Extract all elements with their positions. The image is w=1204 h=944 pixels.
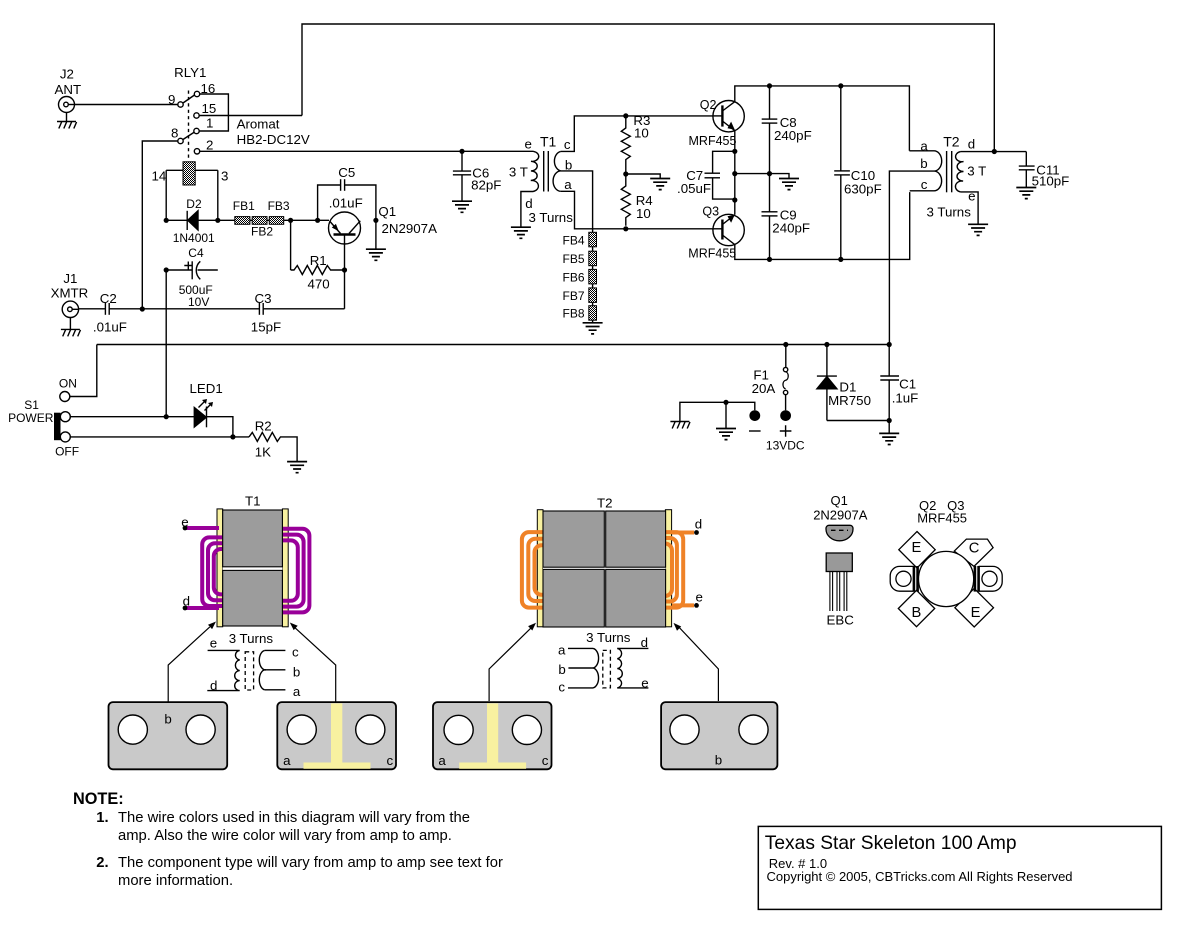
wire FB3 node to Q1 emitter xyxy=(291,219,329,221)
svg-text:10V: 10V xyxy=(188,295,209,309)
svg-text:3 T: 3 T xyxy=(967,164,986,179)
T1 figure lead d xyxy=(183,606,219,611)
connector J2 xyxy=(59,97,75,122)
svg-text:e: e xyxy=(968,189,975,204)
T2 figure lead d xyxy=(672,530,699,535)
Q1 package labels xyxy=(813,493,868,523)
T1 mini labels xyxy=(210,635,301,699)
wire FB3 node down to R1 xyxy=(290,220,292,270)
svg-text:470: 470 xyxy=(308,276,330,291)
svg-text:HB2-DC12V: HB2-DC12V xyxy=(237,132,310,147)
svg-text:FB5: FB5 xyxy=(563,252,585,266)
wire pin15 right to top rail riser xyxy=(199,115,302,117)
svg-text:.1uF: .1uF xyxy=(892,390,919,405)
node C6 top xyxy=(459,149,464,154)
svg-text:ANT: ANT xyxy=(55,82,82,97)
svg-text:d: d xyxy=(525,196,532,211)
node D2 left xyxy=(164,218,169,223)
ground below FB8 xyxy=(583,323,603,334)
node R4 bottom xyxy=(623,226,628,231)
T2 figure lead labels xyxy=(695,517,703,605)
Q1 labels xyxy=(378,204,437,236)
svg-text:630pF: 630pF xyxy=(844,181,882,196)
node R2 left xyxy=(230,434,235,439)
wire ON contact riser xyxy=(70,345,97,397)
arrow to T2 left bar xyxy=(489,623,536,701)
svg-text:1: 1 xyxy=(206,116,213,131)
ferrite bead FB5 xyxy=(589,251,597,266)
MRF455 lead diamond B bottom-left xyxy=(898,590,934,626)
R4 labels xyxy=(636,193,653,221)
Q1 package body front view xyxy=(826,553,852,572)
T1 figure core underlay xyxy=(223,510,283,626)
T1 figure winding loops right xyxy=(255,529,309,613)
node FB3 right xyxy=(288,218,293,223)
wire T1 c to Q2 base xyxy=(561,116,713,151)
svg-text:e: e xyxy=(641,675,648,690)
svg-text:J2: J2 xyxy=(60,66,74,81)
svg-text:Q1: Q1 xyxy=(831,493,848,508)
T1 figure lead e xyxy=(183,526,219,531)
ground at minus node xyxy=(716,429,736,440)
wire T1 b to beads xyxy=(561,171,593,323)
ground at R3/R4 xyxy=(650,179,670,190)
C2 labels xyxy=(93,291,127,334)
svg-text:3: 3 xyxy=(221,169,228,184)
terminal plus 13VDC xyxy=(780,410,792,437)
ground at C6 xyxy=(452,201,472,212)
node minus ground xyxy=(723,400,728,405)
svg-text:Q1: Q1 xyxy=(378,204,396,219)
T2 figure winding loops left xyxy=(522,532,560,608)
wire J2 to relay pin 9 xyxy=(75,104,178,106)
T1 figure bobbin left bar xyxy=(217,509,223,627)
svg-text:C4: C4 xyxy=(188,246,204,260)
connector J1 xyxy=(62,301,79,329)
wire Q1 base down xyxy=(344,235,346,309)
svg-text:d: d xyxy=(641,635,648,650)
svg-text:R1: R1 xyxy=(310,253,327,268)
T2 mini taps xyxy=(568,648,593,688)
LED LED1 xyxy=(194,399,213,427)
svg-text:2N2907A: 2N2907A xyxy=(382,221,438,236)
node emitter mid xyxy=(732,171,737,176)
wire pin8 down to C2 node xyxy=(142,141,178,309)
svg-text:C5: C5 xyxy=(338,165,355,180)
wire C3 row xyxy=(79,308,345,310)
diode D2 xyxy=(187,211,198,230)
svg-text:MRF455: MRF455 xyxy=(917,511,967,526)
svg-text:1N4001: 1N4001 xyxy=(173,231,215,245)
svg-text:a: a xyxy=(283,753,291,768)
capacitor C11 xyxy=(1019,152,1035,188)
Q2 labels xyxy=(689,98,737,148)
svg-text:9: 9 xyxy=(168,92,175,107)
svg-text:C3: C3 xyxy=(255,291,272,306)
svg-text:Aromat: Aromat xyxy=(237,117,280,132)
svg-text:EBC: EBC xyxy=(827,613,855,628)
T1 mini core (dashed) xyxy=(245,652,253,690)
svg-text:C: C xyxy=(969,540,980,556)
svg-text:b: b xyxy=(558,662,565,677)
node C2 right xyxy=(140,306,145,311)
RLY1 labels xyxy=(168,65,310,153)
wire T2 d lead xyxy=(961,151,1027,153)
svg-text:FB7: FB7 xyxy=(563,289,585,303)
svg-text:240pF: 240pF xyxy=(774,128,812,143)
T1 d lead xyxy=(521,192,533,228)
svg-text:FB2: FB2 xyxy=(251,225,273,239)
ferrite bead FB8 xyxy=(589,306,597,321)
MRF455 lead diamond C top-right xyxy=(954,539,993,566)
arrow to T1 right bar xyxy=(290,623,336,703)
T1 figure core blocks xyxy=(223,510,283,626)
ground at Q1 xyxy=(366,249,386,260)
diode D1 xyxy=(817,345,889,421)
svg-text:a: a xyxy=(564,177,572,192)
R1 labels xyxy=(308,253,330,292)
ground at T2 e xyxy=(968,224,988,235)
wire S1 lower row xyxy=(70,436,249,438)
relay coil RLY1 xyxy=(166,162,218,221)
svg-text:The wire colors used in this d: The wire colors used in this diagram wil… xyxy=(118,810,470,826)
svg-text:FB1: FB1 xyxy=(233,199,255,213)
svg-text:3 Turns: 3 Turns xyxy=(229,631,274,646)
svg-text:13VDC: 13VDC xyxy=(766,439,805,453)
svg-text:15pF: 15pF xyxy=(251,320,281,335)
svg-text:MRF455: MRF455 xyxy=(689,134,737,148)
T1 labels xyxy=(509,134,573,226)
capacitor C1 xyxy=(880,345,899,434)
transformer T2 primary winding a-b-c xyxy=(889,151,941,345)
svg-text:OFF: OFF xyxy=(55,444,79,458)
svg-text:E: E xyxy=(912,540,922,556)
svg-text:c: c xyxy=(921,177,928,192)
SEC4 xyxy=(813,493,1002,628)
T1 figure winding loops left xyxy=(202,537,250,606)
D2 labels xyxy=(173,197,215,245)
SEC3 xyxy=(109,493,778,769)
svg-text:c: c xyxy=(292,645,299,660)
Q3 labels xyxy=(688,204,736,260)
wire Q1 collector to ground xyxy=(375,220,377,249)
transformer T2 secondary winding d-e xyxy=(955,152,963,192)
svg-text:J1: J1 xyxy=(63,271,77,286)
ferrite bead FB4 xyxy=(589,232,597,247)
C11 labels xyxy=(1032,162,1070,188)
C6 labels xyxy=(471,166,501,193)
svg-text:10: 10 xyxy=(634,126,649,141)
notes xyxy=(73,790,503,889)
node Q2 emitter xyxy=(732,149,737,154)
node D1 top xyxy=(824,342,829,347)
svg-text:a: a xyxy=(438,753,446,768)
svg-text:d: d xyxy=(210,678,217,693)
svg-text:82pF: 82pF xyxy=(471,178,501,193)
svg-text:RLY1: RLY1 xyxy=(174,65,206,80)
svg-text:b: b xyxy=(293,664,300,679)
svg-text:NOTE:: NOTE: xyxy=(73,790,124,808)
T2 figure lead e xyxy=(672,603,699,608)
node C1 top xyxy=(887,342,892,347)
wire Q3 collector to bottom rail xyxy=(735,192,910,259)
ground (chassis) at J2 xyxy=(57,122,77,129)
ground at C1 xyxy=(879,433,899,444)
svg-text:e: e xyxy=(696,590,703,605)
svg-text:.01uF: .01uF xyxy=(93,320,127,335)
T2 mini leads d e xyxy=(617,648,648,688)
C9 labels xyxy=(772,208,810,236)
svg-text:2.: 2. xyxy=(96,855,108,871)
wire S1 upper row xyxy=(70,417,233,437)
svg-text:2: 2 xyxy=(206,138,213,153)
svg-text:E: E xyxy=(971,605,981,621)
capacitor C10 xyxy=(834,86,850,260)
transistor Q1 xyxy=(329,212,361,244)
MRF455 lead diamond E top-left xyxy=(899,532,935,568)
C4 labels xyxy=(179,246,213,309)
ferrite bead FB7 xyxy=(589,288,597,303)
wire pin16 to pin1 bracket xyxy=(199,94,228,131)
wire pin2 to T1 e xyxy=(200,150,534,152)
svg-text:Q2: Q2 xyxy=(700,98,717,112)
S1 labels xyxy=(8,377,79,459)
svg-text:MR750: MR750 xyxy=(828,393,871,408)
svg-text:15: 15 xyxy=(202,101,217,116)
svg-text:3 T: 3 T xyxy=(509,165,528,180)
svg-text:MRF455: MRF455 xyxy=(688,246,736,260)
T2 mini secondary winding xyxy=(617,648,622,688)
T1 mini secondary winding xyxy=(259,650,266,689)
wire Q2 collector to rail xyxy=(735,86,910,151)
T2 figure bobbin left bar xyxy=(537,510,543,627)
T2 figure winding loops right xyxy=(650,532,683,608)
svg-text:c: c xyxy=(558,680,565,695)
C7 labels xyxy=(677,168,711,196)
svg-text:Copyright © 2005, CBTricks.com: Copyright © 2005, CBTricks.com All Right… xyxy=(767,869,1073,884)
T2 figure bobbin right bar xyxy=(665,510,671,627)
R3 labels xyxy=(633,113,650,140)
capacitor C8 xyxy=(762,86,778,174)
node C4 left xyxy=(164,267,169,272)
J1 labels xyxy=(51,271,89,300)
svg-text:B: B xyxy=(912,605,922,621)
FB4-8 labels xyxy=(563,233,585,320)
T2 figure core blocks xyxy=(543,511,666,627)
svg-text:a: a xyxy=(558,642,566,657)
MRF455 mounting tab left xyxy=(890,566,917,592)
ground (chassis) at J1 xyxy=(61,329,81,336)
Q1 package leads xyxy=(830,572,847,612)
svg-text:1K: 1K xyxy=(255,445,271,460)
resistor R3 xyxy=(621,116,630,174)
svg-text:C2: C2 xyxy=(100,291,117,306)
node LED row xyxy=(164,414,169,419)
svg-text:D2: D2 xyxy=(186,197,202,211)
node C5 left xyxy=(315,218,320,223)
node R3/R4 mid xyxy=(623,171,628,176)
svg-text:10: 10 xyxy=(636,206,651,221)
svg-text:240pF: 240pF xyxy=(772,221,810,236)
svg-text:e: e xyxy=(181,515,188,530)
svg-text:d: d xyxy=(183,594,190,609)
node R1 right xyxy=(342,267,347,272)
svg-text:b: b xyxy=(920,156,927,171)
fuse F1 xyxy=(783,345,788,411)
T2 mini core (dashed) xyxy=(603,650,611,688)
node Q1 collector xyxy=(373,218,378,223)
svg-text:more information.: more information. xyxy=(118,873,233,889)
capacitor C3 xyxy=(259,303,263,315)
C5 labels xyxy=(329,165,363,211)
svg-text:510pF: 510pF xyxy=(1032,174,1070,189)
slug plate 3 xyxy=(433,702,552,769)
ground at T1 d xyxy=(511,227,531,238)
capacitor C4 xyxy=(166,261,218,279)
svg-text:3 Turns: 3 Turns xyxy=(529,210,574,225)
svg-text:The component type will vary f: The component type will vary from amp to… xyxy=(118,855,503,871)
svg-text:14: 14 xyxy=(152,169,167,184)
svg-text:2N2907A: 2N2907A xyxy=(813,508,868,523)
F1 labels xyxy=(752,367,776,396)
svg-text:amp. Also the wire color will: amp. Also the wire color will vary from … xyxy=(118,828,452,844)
capacitor C6 xyxy=(453,151,471,201)
transistor Q3 xyxy=(713,214,745,245)
capacitor C7 xyxy=(705,151,735,199)
wire main 13V rail xyxy=(97,344,889,346)
D1 labels xyxy=(828,379,871,408)
svg-text:b: b xyxy=(164,711,171,726)
ground (chassis) left of terminals xyxy=(670,422,690,429)
resistor R1 xyxy=(291,266,345,275)
node F1 top xyxy=(783,342,788,347)
transformer T1 primary winding xyxy=(531,151,539,191)
node R3 top xyxy=(623,113,628,118)
switch S1 xyxy=(54,392,70,442)
T2 labels xyxy=(920,134,986,220)
R2 labels xyxy=(255,419,272,460)
svg-text:20A: 20A xyxy=(752,381,776,396)
node C8 bottom xyxy=(767,171,772,176)
wire top rail xyxy=(302,24,994,151)
T1 mini taps xyxy=(265,650,286,689)
wire minus terminal to grounds xyxy=(680,402,755,421)
node D2 right xyxy=(215,218,220,223)
FB labels xyxy=(233,199,290,239)
MRF455 mounting tab right xyxy=(975,566,1002,592)
C3 labels xyxy=(251,291,281,334)
arrow to T2 right bar xyxy=(674,623,719,701)
node C10 top xyxy=(838,83,843,88)
arrow to T1 left bar xyxy=(168,622,216,703)
capacitor C2 xyxy=(105,303,109,315)
ferrite bead FB6 xyxy=(589,269,597,284)
terminal minus xyxy=(749,410,761,431)
SEC2 xyxy=(8,342,918,473)
relay RLY1 contacts xyxy=(178,91,200,161)
svg-text:XMTR: XMTR xyxy=(51,285,89,300)
J2 labels xyxy=(55,66,82,97)
svg-text:3 Turns: 3 Turns xyxy=(586,630,631,645)
relay coil pin labels xyxy=(152,169,229,184)
T2 mini labels xyxy=(558,635,649,695)
svg-text:T1: T1 xyxy=(540,134,557,150)
node C1 bottom xyxy=(887,418,892,423)
T2 figure core underlay xyxy=(543,511,666,627)
node T2 d xyxy=(992,149,997,154)
svg-text:FB4: FB4 xyxy=(563,233,585,247)
C8 labels xyxy=(774,115,812,143)
ground at C11 xyxy=(1016,188,1036,199)
svg-text:c: c xyxy=(564,137,571,152)
title block text xyxy=(765,833,1073,884)
svg-text:e: e xyxy=(210,635,217,650)
svg-text:FB3: FB3 xyxy=(268,199,290,213)
MRF455 body circle xyxy=(919,551,974,606)
ground mid right xyxy=(779,179,799,190)
node Q3 emitter xyxy=(732,197,737,202)
SEC1 xyxy=(452,83,1069,344)
slug plate 2 xyxy=(277,702,396,769)
slug plate 4 xyxy=(661,702,777,769)
slug plate 1 xyxy=(109,702,228,769)
C10 labels xyxy=(844,168,882,196)
svg-text:FB6: FB6 xyxy=(563,270,585,284)
T1 figure bobbin right bar xyxy=(282,509,288,627)
svg-text:8: 8 xyxy=(171,125,178,140)
svg-text:a: a xyxy=(920,138,928,153)
MRF455 lead diamond E bottom-right xyxy=(955,588,994,627)
title block frame xyxy=(758,826,1161,909)
svg-text:Texas Star Skeleton 100 Amp: Texas Star Skeleton 100 Amp xyxy=(765,833,1017,854)
MRF455 package labels xyxy=(917,498,967,526)
svg-text:POWER: POWER xyxy=(8,411,54,425)
svg-text:c: c xyxy=(387,753,394,768)
T1 mini primary winding xyxy=(207,650,239,690)
T2 core xyxy=(947,151,952,192)
svg-text:1.: 1. xyxy=(96,810,108,826)
svg-text:e: e xyxy=(525,137,532,152)
ferrite bead FB2 xyxy=(252,217,267,225)
svg-text:ON: ON xyxy=(59,377,77,391)
svg-text:.01uF: .01uF xyxy=(329,196,363,211)
resistor R4 xyxy=(621,174,630,226)
C1 labels xyxy=(892,377,919,406)
ferrite bead FB3 xyxy=(269,217,283,225)
node C9 bottom xyxy=(767,257,772,262)
svg-text:S1: S1 xyxy=(24,398,39,412)
wire node to earth ground xyxy=(725,402,727,428)
T2 mini primary winding xyxy=(592,648,599,688)
transistor Q2 xyxy=(713,101,744,132)
svg-text:T2: T2 xyxy=(597,496,613,511)
wire emitter mid to C8 node and ground xyxy=(735,174,789,179)
node C8 top xyxy=(767,83,772,88)
resistor R2 xyxy=(249,432,297,461)
wire Q2 emitter column xyxy=(734,131,736,215)
capacitor C5 xyxy=(318,179,376,220)
svg-text:a: a xyxy=(293,684,301,699)
ferrite bead FB1 xyxy=(235,217,250,225)
svg-text:.05uF: .05uF xyxy=(677,181,711,196)
wire mid node to ground xyxy=(626,174,660,179)
capacitor C9 xyxy=(762,174,778,260)
Q1 package top view xyxy=(826,525,853,541)
svg-text:3 Turns: 3 Turns xyxy=(927,205,972,220)
MRF455 pin letters xyxy=(912,540,981,621)
svg-text:c: c xyxy=(542,753,549,768)
svg-text:b: b xyxy=(715,753,722,768)
